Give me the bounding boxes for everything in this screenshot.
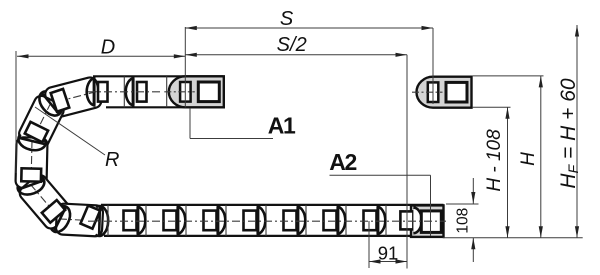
svg-text:91: 91 [378, 243, 399, 264]
svg-text:H: H [518, 152, 539, 166]
svg-text:S: S [280, 8, 294, 30]
svg-text:R: R [105, 149, 119, 171]
svg-text:108: 108 [455, 208, 472, 234]
svg-text:A1: A1 [268, 112, 296, 138]
svg-text:S/2: S/2 [277, 34, 307, 56]
svg-text:H - 108: H - 108 [484, 129, 505, 192]
svg-text:D: D [101, 36, 115, 58]
svg-text:HF = H + 60: HF = H + 60 [557, 78, 581, 188]
svg-text:A2: A2 [329, 149, 356, 175]
